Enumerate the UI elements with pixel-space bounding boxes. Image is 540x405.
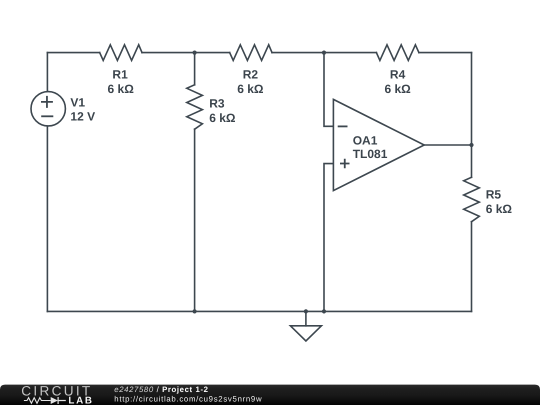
svg-text:R2: R2 [243, 67, 259, 81]
junction node top-right (inverting tap) [322, 51, 326, 55]
svg-text:R1: R1 [112, 67, 128, 81]
op-amp non-inverting sign [340, 159, 350, 169]
wire left rail upper (to V1 top) [46, 53, 48, 92]
wire bottom ground rail [47, 310, 471, 312]
footer bar [0, 385, 540, 405]
wire top rail left segment [47, 52, 99, 54]
junction node op-amp output [469, 143, 473, 147]
resistor R4 [376, 45, 419, 61]
svg-text:http://circuitlab.com/cu9s2sv5: http://circuitlab.com/cu9s2sv5nrn9w [114, 394, 262, 403]
svg-text:e2427580 / Project 1-2: e2427580 / Project 1-2 [114, 385, 208, 394]
resistor R2 [230, 45, 272, 61]
wire top rail middle segment [142, 52, 230, 54]
junction node top-middle (R3 tap) [193, 51, 197, 55]
wire op-amp output [424, 144, 471, 146]
svg-text:6 kΩ: 6 kΩ [384, 82, 411, 96]
wire non-inverting input branch [324, 164, 333, 312]
svg-text:R5: R5 [486, 187, 502, 201]
svg-text:6 kΩ: 6 kΩ [237, 82, 264, 96]
V1 plus sign [41, 96, 53, 108]
resistor R3 [187, 85, 203, 129]
svg-text:6 kΩ: 6 kΩ [486, 202, 513, 216]
svg-text:OA1: OA1 [353, 133, 378, 147]
wire right rail lower [471, 222, 473, 312]
svg-text:6 kΩ: 6 kΩ [108, 82, 135, 96]
svg-text:12 V: 12 V [70, 110, 95, 124]
wire top rail rightmost segment [419, 52, 472, 54]
wire inverting input branch [324, 53, 333, 127]
svg-text:LAB: LAB [68, 396, 93, 405]
resistor R1 [100, 45, 142, 61]
wire top rail right-middle segment [272, 52, 376, 54]
junction node bottom non-inverting tap [322, 309, 326, 313]
wire R3 bottom to ground rail [194, 129, 196, 311]
wire right rail upper [471, 53, 473, 178]
op-amp inverting sign [338, 125, 348, 127]
V1 minus sign [41, 115, 53, 117]
svg-text:6 kΩ: 6 kΩ [209, 111, 236, 125]
resistor R5 [464, 177, 480, 221]
svg-text:R3: R3 [209, 97, 225, 111]
op-amp U1 triangle [333, 99, 424, 190]
svg-text:TL081: TL081 [353, 147, 388, 161]
logo diode [51, 397, 58, 404]
junction node bottom ground tap [304, 309, 308, 313]
wire R3 top stub [194, 53, 196, 85]
junction node bottom R3 [193, 309, 197, 313]
logo resistor zigzag [24, 398, 51, 404]
svg-text:V1: V1 [70, 96, 85, 110]
svg-text:R4: R4 [390, 67, 406, 81]
wire left rail lower (V1 bottom to ground rail) [46, 126, 48, 311]
ground [305, 311, 307, 325]
voltage source V1 [31, 92, 65, 126]
